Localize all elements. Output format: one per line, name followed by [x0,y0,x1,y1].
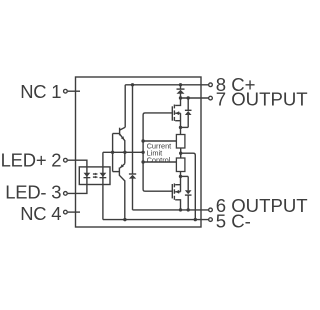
transistor Q2 [113,168,125,181]
wire control to resistor R2 [141,160,176,163]
wire Q3 source node to R1 [180,127,182,134]
diode D1 [177,85,185,98]
net C+ wire (pin 8 rail) [125,83,208,86]
wire photodiode output to control node [103,151,145,154]
wire pin3 to LED cathode [68,184,87,193]
pin 4 NC stub wire [68,211,80,213]
IC package outline U1 [76,77,202,227]
pin 7 terminal circle [209,96,213,100]
MOSFET Q3 [172,98,182,129]
current limit control block text [147,141,172,164]
wire LED vertical (pin2 to pin3 through LED) [86,167,88,185]
pin 2 terminal circle [64,158,68,162]
diode D3 [129,173,136,178]
wire pin2 to LED anode [68,160,87,167]
wire mid-resistor node to C- rail [181,153,196,219]
wire branch with diode D3 from C+ rail to pin6 rail [132,85,134,210]
resistor R1 [176,135,185,149]
svg-text:LED- 3: LED- 3 [5,181,61,202]
svg-text:LED+ 2: LED+ 2 [1,150,62,171]
optical coupling arrows [93,173,98,179]
pin 6 terminal circle [209,208,213,212]
wire control to resistor R1 [141,139,176,142]
pin 3 terminal circle [64,192,68,196]
wire R2 to Q4 source node [179,172,182,179]
wire gate bus with rounded corners to Q3 and Q4 gates [143,113,172,191]
photodiode D6 [100,173,107,179]
wire Q2 collector to C- rail [124,180,126,219]
pin 1 NC stub wire [68,90,80,92]
svg-text:NC 4: NC 4 [20,203,61,224]
wire photodiode vertical to C- rail [102,152,104,219]
wire Q1 emitter to Q2 [120,140,125,168]
MOSFET Q4 [172,176,180,210]
svg-text:Control: Control [147,156,171,165]
svg-text:5 C-: 5 C- [216,210,251,231]
wire pin 7 to Q3 drain node [179,96,209,99]
transistor Q1 [113,127,126,140]
resistor R2 [176,158,185,172]
pin 4 terminal circle [64,210,68,214]
pin 1 terminal circle [64,89,68,93]
wire V1 from C+ rail to Q1 collector [124,85,126,128]
diode D2 body diode of Q3 [181,98,192,127]
net C- wire (pin 5 rail) [103,218,209,221]
pin 5 terminal circle [209,218,213,222]
pin 8 terminal circle [209,83,213,87]
wire pin 6 rail to Q4 drain node [133,208,209,211]
optocoupler isolation box [79,167,110,185]
wire R1 to R2 junction [179,148,182,158]
wire base feed vertical to Q1/Q2 bases [112,134,114,172]
svg-text:NC 1: NC 1 [20,81,61,102]
diode D4 body diode of Q4 [181,176,192,210]
LED D5 [84,173,91,179]
svg-text:7 OUTPUT: 7 OUTPUT [216,89,308,110]
